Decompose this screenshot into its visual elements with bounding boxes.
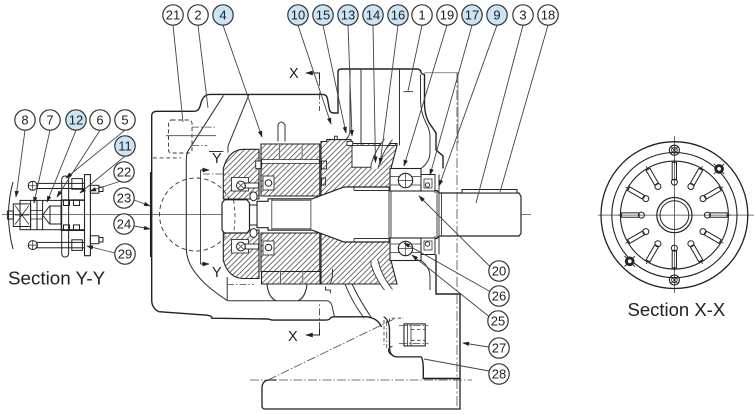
leader 16 [380, 25, 398, 164]
bottom nut square [72, 240, 83, 251]
bolt lower-left dark [625, 256, 635, 266]
callout 3 [513, 5, 533, 25]
svg-text:25: 25 [491, 314, 505, 329]
hub inner circle [660, 201, 689, 230]
leader 14 [373, 25, 376, 162]
svg-text:4: 4 [219, 8, 226, 23]
callout 4 [213, 5, 233, 25]
left bracket arc [9, 182, 14, 249]
leader 28 [424, 359, 489, 371]
callout 12 [66, 110, 86, 130]
o-ring upper [250, 192, 257, 201]
leader 19 [404, 25, 447, 166]
seal squares [64, 200, 70, 206]
hidden passage line [166, 135, 216, 137]
screw lower [237, 242, 246, 251]
vane tip left upper [256, 161, 262, 169]
leader 11 [80, 156, 125, 193]
svg-text:26: 26 [492, 289, 506, 304]
callout 22 [114, 162, 134, 182]
bearing lower retainer [421, 238, 435, 255]
callout 14 [363, 5, 383, 25]
bell channel lower white band [371, 260, 393, 290]
svg-text:9: 9 [493, 8, 500, 23]
callout 2 [188, 5, 208, 25]
leader 6 [57, 130, 100, 197]
svg-text:27: 27 [492, 341, 506, 356]
svg-text:19: 19 [440, 8, 454, 23]
svg-text:X: X [289, 66, 299, 82]
vertical pin rod [62, 176, 69, 257]
svg-text:1: 1 [418, 8, 425, 23]
bell channel upper white band [371, 139, 393, 169]
vane pin lower [265, 244, 272, 251]
discharge pocket white [352, 145, 380, 167]
foot top edge solid right [423, 378, 460, 380]
left side plate lower (hatched) [223, 230, 259, 279]
svg-text:21: 21 [166, 8, 180, 23]
vane tip right upper [322, 161, 327, 169]
discharge passage walls [346, 69, 351, 140]
top bolt [28, 181, 37, 190]
dash-dot stub right of port rect [192, 126, 216, 128]
callout 16 [388, 5, 408, 25]
svg-text:Section X-X: Section X-X [628, 299, 726, 320]
bearing spacer sleeve lines [354, 187, 389, 242]
dashed hidden port rect [169, 120, 193, 153]
spool mid [50, 206, 61, 224]
screw window upper [232, 178, 249, 192]
right plate [85, 175, 91, 256]
leader 21 [173, 25, 183, 122]
svg-text:5: 5 [121, 113, 128, 128]
svg-text:Y: Y [212, 151, 222, 167]
vane tip detail [347, 141, 353, 145]
o-ring lower [250, 229, 257, 238]
bolt top [669, 145, 679, 155]
svg-text:20: 20 [492, 264, 506, 279]
callout 10 [288, 5, 308, 25]
shaft neck [250, 205, 258, 225]
leader 15 [323, 25, 346, 133]
bolt upper-right dark [714, 164, 724, 174]
callout 21 [163, 5, 183, 25]
lower channel walls [345, 284, 372, 319]
leader 29 [87, 246, 115, 253]
vane pin upper [265, 180, 272, 187]
screw window lower [232, 240, 249, 254]
callout 29 [115, 244, 135, 264]
spline hidden dashed arc [234, 200, 236, 233]
leader 2 [198, 25, 208, 108]
bolt bottom [669, 275, 679, 285]
svg-text:15: 15 [316, 8, 330, 23]
svg-text:17: 17 [465, 8, 479, 23]
callout 7 [40, 110, 60, 130]
top nut square [72, 179, 83, 190]
poppet cone [43, 206, 50, 225]
leader 23 [134, 200, 150, 206]
leader 20 [419, 196, 490, 267]
svg-text:24: 24 [117, 217, 131, 232]
rotor upper gap band [262, 160, 320, 164]
body outline right lower [422, 255, 461, 379]
fitting dashed holes [411, 330, 425, 341]
leader 5 [66, 130, 125, 178]
top tab [90, 185, 99, 193]
port hole centerline [386, 319, 388, 348]
bearing upper outer race [390, 169, 421, 192]
upper strip divisions [279, 144, 302, 160]
callout 18 [538, 5, 558, 25]
leader 17 [430, 25, 472, 175]
callout 23 [114, 188, 134, 208]
shaft left end block [222, 200, 250, 233]
svg-text:2: 2 [194, 8, 201, 23]
dash-dot below plate [227, 284, 254, 286]
svg-text:13: 13 [341, 8, 355, 23]
seal plate right [435, 175, 439, 255]
svg-text:16: 16 [391, 8, 405, 23]
svg-text:X: X [288, 329, 298, 345]
dash-dot stub left of cartridge top [203, 173, 229, 175]
svg-text:18: 18 [541, 8, 555, 23]
lower plate strip (hatched) [262, 272, 321, 285]
vane slot window upper [263, 176, 274, 190]
rotor block lower (hatched) [261, 233, 320, 272]
mounting face line [150, 172, 152, 257]
bottom tab [90, 236, 99, 244]
rotor block upper (hatched) [261, 144, 320, 196]
callout 25 [488, 311, 508, 331]
port wall U above rotor [278, 122, 285, 142]
callout 26 [489, 286, 509, 306]
svg-text:6: 6 [96, 113, 103, 128]
vane slot window lower [263, 241, 274, 255]
pump body outline [152, 69, 443, 301]
callout 13 [338, 5, 358, 25]
bearing lower outer race [390, 238, 421, 261]
leader 24 [134, 226, 150, 229]
callout 15 [313, 5, 333, 25]
svg-text:Section Y-Y: Section Y-Y [8, 268, 106, 289]
leader 13 [348, 25, 352, 136]
svg-text:22: 22 [117, 165, 131, 180]
leader 22 [90, 181, 121, 191]
tip rect [7, 211, 13, 219]
spool stem lines [31, 211, 43, 220]
hub outer circle [657, 198, 692, 233]
strip division lines [280, 272, 302, 285]
leader 9 [439, 25, 497, 186]
plate seat step line [209, 151, 223, 153]
leader 18 [500, 25, 548, 192]
callout 24 [114, 214, 134, 234]
dashed stub lower-left [153, 157, 181, 159]
leader 4 [223, 25, 262, 137]
svg-text:29: 29 [118, 247, 132, 262]
screw upper [237, 181, 246, 190]
bell inner wall lower [421, 261, 430, 291]
callout 27 [489, 338, 509, 358]
bearing lower ball [398, 241, 412, 255]
leader 27 [463, 343, 489, 347]
key on shaft [462, 190, 517, 194]
retainer clip lower-right [326, 287, 331, 294]
svg-text:11: 11 [118, 139, 132, 154]
bore top line [351, 144, 397, 146]
diagonal dash-dot [268, 319, 394, 380]
small tab on ring [335, 136, 338, 139]
left side plate upper (hatched) [223, 149, 259, 199]
callout 20 [489, 261, 509, 281]
leader 8 [16, 130, 25, 197]
housing body [20, 200, 85, 229]
Y cut line [200, 170, 202, 264]
bell mouth wall [186, 96, 227, 301]
adjusting screw cap [13, 204, 30, 227]
bearing upper retainer [421, 175, 435, 192]
plate left edge extension [226, 277, 228, 300]
internal port wall vertical [399, 70, 401, 146]
callout 19 [437, 5, 457, 25]
X-X vertical centerline [673, 136, 675, 293]
callout 6 [90, 110, 110, 130]
bearing upper ball [398, 173, 412, 187]
svg-text:14: 14 [366, 8, 380, 23]
svg-text:8: 8 [21, 113, 28, 128]
svg-text:28: 28 [492, 367, 506, 382]
bell inner wall [421, 75, 431, 169]
rotor hub lines on shaft [272, 199, 311, 230]
leader 26 [404, 243, 490, 292]
foot outline [262, 379, 460, 410]
callout 1 [412, 5, 432, 25]
svg-text:23: 23 [117, 191, 131, 206]
svg-text:12: 12 [69, 113, 83, 128]
leader 10 [298, 25, 331, 124]
leader 25 [412, 255, 489, 317]
port hole dashed [383, 320, 385, 345]
body outline bottom left [152, 301, 382, 328]
svg-text:3: 3 [519, 8, 526, 23]
port block [384, 317, 422, 357]
vanes [618, 159, 731, 272]
leader 3 [476, 25, 523, 203]
shaft outline [257, 187, 521, 242]
dashed inlet circle [160, 178, 233, 251]
leader 12 [47, 130, 76, 202]
callout 17 [462, 5, 482, 25]
callout 11 [115, 136, 135, 156]
flange inner circle [612, 153, 737, 278]
right block [61, 200, 84, 231]
X-X horizontal centerline [598, 214, 754, 216]
callout 28 [489, 364, 509, 384]
cam ring circle [620, 161, 728, 269]
flange outer circle [601, 142, 748, 289]
cavity wall left of cartridge [228, 94, 249, 152]
shaft shoulder lines [389, 187, 442, 242]
fitting block [404, 324, 425, 346]
main horizontal centerline [2, 214, 531, 216]
callout 8 [15, 110, 35, 130]
leader 7 [34, 130, 50, 203]
cam wedge lower (hatched) [312, 230, 397, 284]
C-clip in port [389, 347, 393, 355]
svg-text:Y: Y [212, 265, 222, 281]
foot dash-dot line [250, 379, 472, 381]
fitting centerlines [399, 324, 429, 326]
callout 5 [115, 110, 135, 130]
X section dash-dot vertical [456, 73, 458, 408]
cam ring lower-right corner [330, 269, 333, 284]
drain throat arcs below cartridge [267, 285, 307, 301]
callout 9 [487, 5, 507, 25]
cam wedge upper (hatched) [312, 140, 397, 199]
phantom outline right of block [425, 73, 459, 143]
bottom bolt [28, 241, 37, 250]
svg-text:7: 7 [46, 113, 53, 128]
svg-text:10: 10 [291, 8, 305, 23]
leader 1 [408, 25, 422, 91]
cavity floor line [227, 301, 334, 317]
port block dashed corner [390, 318, 405, 322]
